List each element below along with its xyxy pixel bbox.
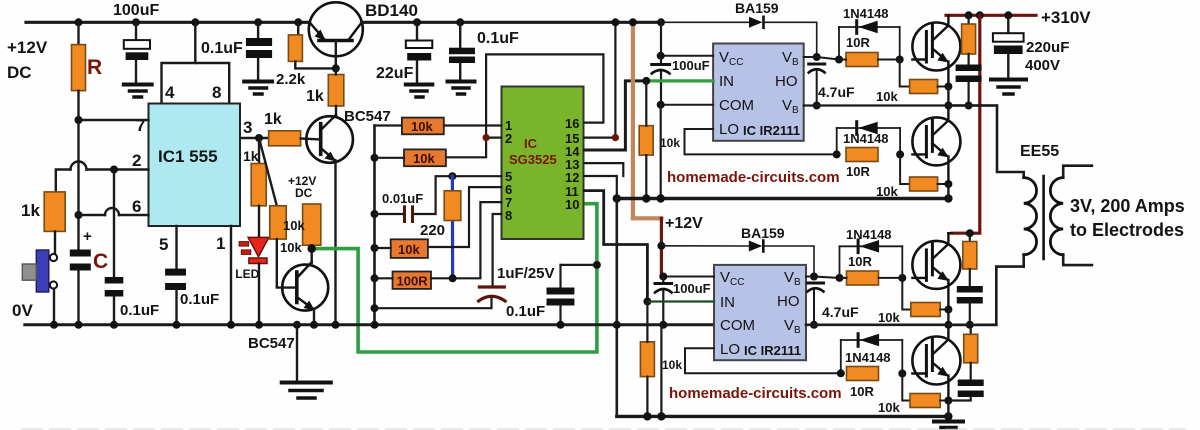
wire emitter return lower: [617, 415, 949, 418]
wire pin6 line: [428, 187, 502, 247]
svg-text:5: 5: [159, 235, 168, 254]
wire tan +12V feed: [633, 22, 662, 218]
LED: [239, 242, 249, 247]
svg-text:1N4148: 1N4148: [845, 350, 891, 365]
svg-text:IN: IN: [720, 294, 735, 311]
svg-text:10k: 10k: [398, 242, 420, 257]
svg-text:1k: 1k: [264, 111, 282, 128]
transistor IGBT Q3: [912, 233, 960, 309]
wire +12V top rail: [26, 21, 310, 24]
resistor 220: [444, 191, 461, 221]
wire maroon +12V drop lower: [660, 218, 663, 276]
svg-text:3V, 200 Amps: 3V, 200 Amps: [1070, 196, 1185, 216]
svg-text:10R: 10R: [848, 254, 872, 269]
wire pin3 to 10k diagonal: [259, 138, 277, 206]
svg-text:3: 3: [243, 118, 252, 137]
svg-text:IC1 555: IC1 555: [158, 147, 218, 166]
svg-text:1N4148: 1N4148: [843, 6, 889, 21]
svg-text:220uF: 220uF: [1026, 39, 1069, 56]
svg-text:DC: DC: [7, 63, 32, 82]
svg-text:10R: 10R: [850, 384, 874, 399]
resistor 10R upper LS: [846, 148, 878, 162]
svg-text:10k: 10k: [878, 400, 900, 415]
svg-text:1uF/25V: 1uF/25V: [497, 265, 555, 282]
wire left bus: [373, 126, 376, 325]
svg-text:400V: 400V: [1025, 57, 1060, 74]
svg-text:12: 12: [565, 170, 579, 185]
svg-text:10k: 10k: [280, 240, 302, 255]
svg-text:BA159: BA159: [735, 0, 779, 16]
resistor 1k LED series: [258, 138, 260, 164]
svg-text:R: R: [87, 56, 102, 79]
node rail junction dots: [75, 18, 83, 26]
svg-text:100R: 100R: [397, 274, 429, 289]
resistor 10k pin6: [391, 239, 428, 258]
ground BC547 emitter: [296, 325, 298, 381]
resistor 10k base lower BC547: [270, 206, 286, 239]
wire VB bottom to mid node lower: [806, 323, 996, 326]
transistor IGBT Q2: [912, 106, 960, 185]
wire Vcc line upper: [661, 55, 713, 57]
svg-text:6: 6: [132, 197, 141, 216]
wire Q2 emitter to return: [947, 184, 949, 199]
svg-text:10k: 10k: [411, 119, 433, 134]
svg-text:HO: HO: [775, 73, 798, 90]
resistor 2.2k: [297, 22, 299, 35]
wire COM line upper: [661, 104, 713, 106]
wire Q4 emitter to return: [947, 401, 949, 417]
wire com drop lower: [660, 325, 662, 417]
svg-text:IN: IN: [719, 73, 734, 90]
svg-text:0.01uF: 0.01uF: [382, 191, 423, 206]
wire Q3 emitter to mid node 2: [947, 310, 949, 325]
transistor IGBT Q1: [912, 15, 960, 86]
svg-text:LO: LO: [720, 341, 740, 358]
wire pin6 with hop: [119, 214, 149, 216]
wire Q1 emitter to mid node: [947, 87, 949, 106]
wire maroon drop to lower bridge: [952, 15, 980, 233]
svg-text:BA159: BA159: [741, 225, 785, 241]
wire green IN upper: [646, 79, 713, 82]
svg-text:homemade-circuits.com: homemade-circuits.com: [669, 385, 842, 402]
capacitor 0.1uF pin2: [113, 170, 115, 278]
svg-text:10k: 10k: [876, 89, 898, 104]
svg-text:1N4148: 1N4148: [843, 131, 889, 146]
wire secondary top lead: [1063, 166, 1092, 178]
svg-text:8: 8: [212, 83, 221, 102]
svg-text:0.1uF: 0.1uF: [201, 40, 243, 57]
svg-text:1k: 1k: [21, 201, 40, 220]
wire pin1 line: [444, 124, 502, 126]
svg-text:16: 16: [565, 116, 579, 131]
svg-text:to Electrodes: to Electrodes: [1070, 220, 1184, 240]
svg-text:10k: 10k: [413, 151, 435, 166]
svg-text:220: 220: [420, 222, 445, 239]
wire pin14 to IN: [585, 81, 647, 150]
wire maroon +310V rail: [946, 14, 1036, 17]
svg-text:BC547: BC547: [248, 335, 295, 352]
node maroon junction pin2: [483, 134, 490, 141]
svg-text:4.7uF: 4.7uF: [822, 304, 859, 320]
resistor 10k IN pulldown lower: [640, 342, 654, 377]
wire pin12 to com: [585, 176, 617, 199]
push button: [50, 254, 57, 261]
wire thin rail to BA159: [661, 21, 749, 23]
svg-text:COM: COM: [719, 97, 754, 114]
wire green pin10 link: [312, 204, 597, 352]
svg-text:1k: 1k: [306, 88, 324, 105]
wire VB top line lower: [810, 273, 818, 281]
wire R to pin7 and down to C: [77, 91, 79, 250]
svg-text:homemade-circuits.com: homemade-circuits.com: [667, 169, 840, 186]
wire VB top line upper: [813, 53, 821, 61]
wire Vcc line lower: [661, 276, 714, 278]
svg-text:EE55: EE55: [1020, 143, 1059, 160]
wire 0V rail: [25, 323, 714, 326]
wire mid node to transformer top: [948, 106, 1023, 178]
wire pin15 to rail: [585, 137, 616, 139]
svg-text:2: 2: [132, 151, 141, 170]
svg-text:100uF: 100uF: [673, 281, 711, 296]
resistor 100R: [393, 272, 432, 289]
snubber R3: [969, 233, 971, 241]
svg-text:IC: IC: [524, 136, 538, 151]
wire IN line lower: [647, 300, 714, 302]
svg-text:LO: LO: [719, 121, 739, 138]
svg-text:4.7uF: 4.7uF: [818, 84, 855, 100]
wire emitter return upper: [617, 197, 949, 200]
wire 555 pins 4 8 bracket: [194, 22, 196, 63]
resistor 10k IN pulldown upper: [639, 126, 653, 155]
wire pin8 line: [493, 214, 502, 285]
svg-text:1N4148: 1N4148: [846, 227, 892, 242]
node collector junction redraw: [308, 244, 316, 252]
wire pin13: [585, 163, 624, 176]
resistor 10R lower LS: [847, 367, 879, 381]
svg-text:COM: COM: [720, 317, 755, 334]
svg-text:8: 8: [505, 208, 512, 223]
IC IR2111 lower: [714, 265, 806, 360]
wire pin7: [79, 119, 149, 121]
svg-text:100uF: 100uF: [672, 58, 710, 73]
svg-text:10k: 10k: [876, 184, 898, 199]
snubber C3: [957, 286, 983, 293]
wire pin1 to 0V: [230, 226, 232, 325]
svg-text:1k: 1k: [243, 148, 259, 164]
ground lower right: [934, 420, 963, 424]
svg-text:10R: 10R: [846, 164, 870, 179]
svg-text:+: +: [83, 228, 92, 245]
svg-text:0.1uF: 0.1uF: [180, 291, 219, 308]
svg-text:SG3525: SG3525: [509, 152, 557, 167]
svg-text:HO: HO: [777, 293, 800, 310]
svg-text:IC IR2111: IC IR2111: [743, 123, 800, 138]
svg-text:BD140: BD140: [365, 1, 418, 20]
resistor 10k pin2: [404, 149, 446, 166]
IC IR2111 upper: [713, 44, 804, 141]
wire LO route upper: [685, 129, 837, 154]
svg-text:10k: 10k: [660, 136, 680, 150]
svg-text:1: 1: [216, 234, 225, 253]
resistor 1k base BD140: [328, 75, 344, 107]
transistor IGBT Q4: [912, 325, 960, 401]
svg-text:10k: 10k: [662, 358, 682, 372]
svg-text:10: 10: [565, 197, 579, 212]
wire mid node 2 to transformer bottom: [948, 267, 1023, 325]
svg-text:IC IR2111: IC IR2111: [744, 343, 801, 358]
svg-text:4: 4: [165, 83, 175, 102]
svg-text:2: 2: [505, 131, 512, 146]
wire VB bottom to mid node upper: [804, 104, 997, 106]
svg-text:10k: 10k: [283, 218, 305, 233]
snubber C1: [956, 65, 982, 72]
svg-text:+12V: +12V: [7, 38, 48, 57]
svg-text:0V: 0V: [12, 301, 33, 320]
ground for 100uF: [124, 83, 152, 87]
wire blue timing: [451, 176, 454, 278]
svg-text:0.1uF: 0.1uF: [477, 30, 519, 47]
svg-text:+12V: +12V: [665, 215, 703, 232]
IC1 555: [149, 104, 241, 227]
transistor BC547 lower: [282, 265, 328, 311]
svg-text:10R: 10R: [846, 35, 870, 50]
resistor 10k collector pullup: [303, 204, 321, 245]
svg-text:10k: 10k: [878, 310, 900, 325]
wire pin7 line: [453, 202, 502, 278]
svg-text:BC547: BC547: [344, 108, 391, 125]
svg-text:C: C: [93, 250, 108, 273]
ground for 0.1uF top: [244, 80, 272, 84]
resistor 10k pin1: [402, 118, 444, 135]
snubber R4: [970, 325, 972, 335]
snubber R1: [967, 15, 969, 24]
wire pin16 vref route: [446, 54, 604, 157]
wire pin2 with hop: [87, 168, 149, 170]
IC SG3525: [502, 87, 584, 240]
svg-text:0.1uF: 0.1uF: [120, 302, 159, 319]
wire com drop to lower return: [615, 199, 618, 417]
snubber C4: [958, 380, 984, 387]
svg-text:LED: LED: [235, 267, 259, 281]
svg-text:0.1uF: 0.1uF: [506, 303, 545, 320]
svg-text:+310V: +310V: [1041, 8, 1091, 27]
capacitor 0.1uF pin5: [175, 226, 177, 269]
wire pin11 route to lower IN: [585, 191, 648, 302]
transformer secondary winding: [1050, 178, 1063, 255]
wire secondary bottom lead: [1063, 255, 1092, 265]
resistor R timing: [77, 22, 79, 44]
wire pin5 line: [414, 176, 502, 214]
wire pin2 stub: [486, 137, 501, 139]
bottom faint artifact: [22, 428, 1185, 430]
svg-text:DC: DC: [295, 186, 313, 200]
wire LO route lower: [685, 348, 840, 373]
transformer primary winding: [1024, 178, 1037, 255]
svg-text:22uF: 22uF: [376, 65, 414, 82]
transformer core: [1042, 176, 1045, 259]
svg-text:100uF: 100uF: [113, 2, 159, 19]
svg-text:2.2k: 2.2k: [276, 71, 306, 88]
